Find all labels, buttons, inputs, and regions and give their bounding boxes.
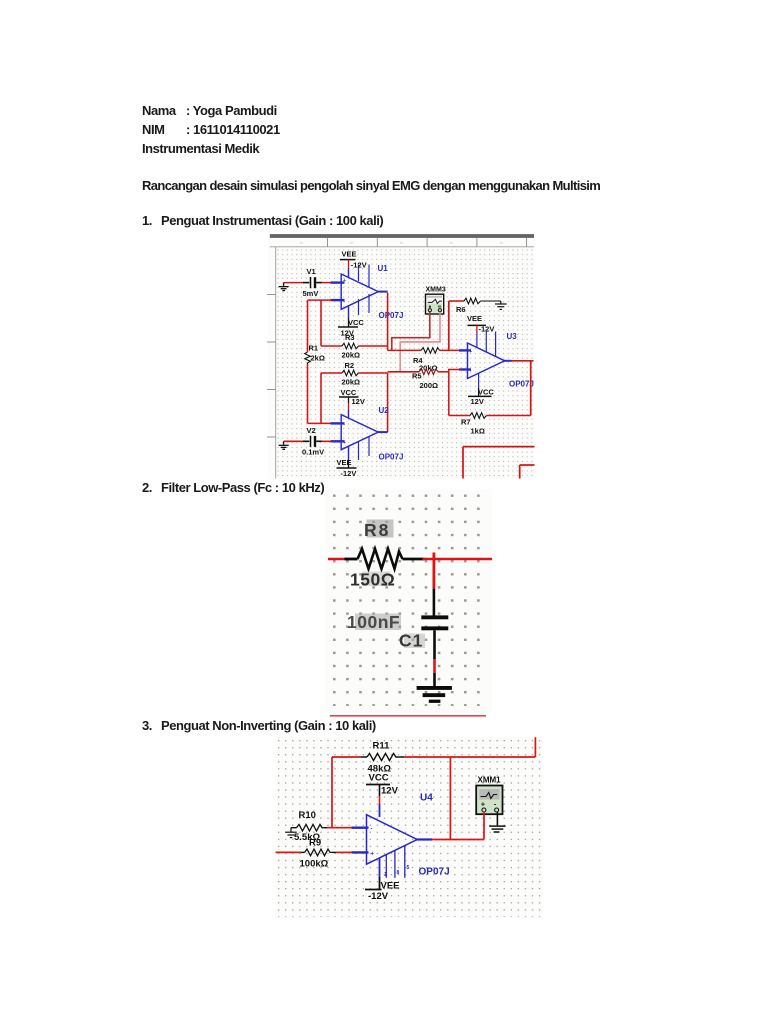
svg-text:-: - [371,827,373,833]
wire segments bottom right (cut off) [463,446,535,448]
output wire [432,839,484,841]
svg-text:20kΩ: 20kΩ [342,377,361,386]
ground [417,686,452,690]
left ruler [275,247,277,479]
svg-text:5: 5 [407,865,410,871]
svg-text:VCC: VCC [348,318,364,327]
schematic background [268,238,535,479]
svg-text:+: + [481,799,486,808]
svg-text:XMM3: XMM3 [426,286,446,293]
item 1 title [142,214,152,227]
svg-text:R1: R1 [309,344,319,353]
header line NIM [142,123,164,136]
U2 inverting input wire [308,422,333,424]
U1 inverting node wires [308,299,333,301]
svg-text:VCC: VCC [478,388,494,397]
svg-text:1: 1 [384,872,387,878]
svg-text:VEE: VEE [467,314,482,323]
svg-text:R2: R2 [345,361,355,370]
VEE rail below U2 [348,446,350,460]
VEE rail [379,858,381,877]
svg-text:-12V: -12V [341,469,357,478]
svg-text:-12V: -12V [368,891,389,902]
wire feedback down to output node [449,757,451,840]
item 3 title [142,719,152,732]
window top bar [270,234,534,238]
svg-text:VCC: VCC [369,773,389,784]
svg-text:U3: U3 [507,332,518,341]
svg-text:OP07J: OP07J [379,311,404,320]
svg-text:R8: R8 [364,520,390,540]
resistor R8 150 ohm [328,558,347,561]
top ruler [270,246,534,248]
svg-text:OP07J: OP07J [379,452,404,461]
svg-text:R9: R9 [309,838,321,849]
svg-text:+: + [469,349,472,355]
svg-text:12V: 12V [352,397,365,406]
op-amp U3 [468,343,505,379]
resistor R8 label [367,520,394,538]
svg-text:U4: U4 [420,793,433,804]
wire inverting node to R11 [331,757,333,828]
svg-text:-12V: -12V [351,260,367,269]
wire ground to V1 [284,282,304,284]
voltage source V2 0.1mV [284,440,304,442]
schematic 3 : non-inverting amplifier multisim screenshot [275,736,544,919]
header line Instrumentasi Medik [142,142,259,155]
ground (V1) [279,283,289,291]
svg-text:+: + [343,440,346,446]
XMM1 right probe to ground [496,812,498,825]
VCC below U3 [478,373,480,388]
svg-text:+: + [343,278,346,284]
wire U1 output node [387,293,389,351]
header line Nama [142,104,176,117]
svg-text:1kΩ: 1kΩ [471,427,485,436]
svg-text:R7: R7 [461,418,471,427]
XMM3 left probe wire [392,312,430,350]
svg-text:100kΩ: 100kΩ [300,859,329,870]
svg-text:20kΩ: 20kΩ [342,351,361,360]
svg-text:R11: R11 [373,741,391,752]
wire V1 to U1 + input [322,282,332,284]
svg-text:R5: R5 [412,371,422,380]
svg-text:U2: U2 [379,406,390,415]
op-amp U4 [367,815,418,865]
svg-text:5mV: 5mV [303,289,319,298]
op-amp U2 [341,415,378,450]
op-amp U1 [341,274,378,309]
schematic 1 : instrumentation amplifier multisim screenshot [267,232,537,480]
svg-text:+: + [371,852,375,858]
svg-text:VEE: VEE [381,881,400,892]
XMM1 left probe wire to output [483,812,485,840]
XMM3 right probe wire [400,312,440,372]
schematic background [275,737,543,918]
svg-text:150Ω: 150Ω [350,570,395,590]
wire (red) bottom edge [330,715,486,717]
svg-text:2kΩ: 2kΩ [311,353,325,362]
svg-text:XMM1: XMM1 [478,776,502,785]
schematic 2 : low pass filter multisim screenshot [326,488,493,718]
svg-text:V2: V2 [307,426,316,435]
schematic background [326,489,492,713]
svg-text:R10: R10 [299,810,316,821]
svg-text:C1: C1 [399,631,423,651]
svg-text:12V: 12V [471,397,484,406]
svg-text:VEE: VEE [337,458,352,467]
svg-text:V1: V1 [307,267,316,276]
heading Rancangan [142,179,600,192]
svg-text:R6: R6 [456,305,466,314]
svg-text:12V: 12V [381,786,399,797]
svg-text:VCC: VCC [341,388,357,397]
svg-text:OP07J: OP07J [419,867,450,878]
svg-text:U1: U1 [378,264,389,273]
resistor R5 200 ohm and wire to U3 - [388,371,419,373]
svg-text:0.1mV: 0.1mV [302,448,324,457]
wire output node [423,558,493,561]
resistor R4 20k ohm and wire to U3 + [388,349,421,351]
wire feedback to top edge [534,737,536,757]
ground (V2) [279,441,289,449]
resistor R2 20k ohm (U2 feedback) [321,372,342,374]
svg-text:100nF: 100nF [347,612,400,632]
svg-text:VEE: VEE [342,249,357,258]
svg-text:200Ω: 200Ω [420,381,439,390]
svg-text:8: 8 [397,870,400,876]
R8 value label [362,572,390,587]
item 2 title [142,481,152,494]
VCC rail below U1 [348,306,350,318]
resistor R6 and ground [448,301,450,350]
svg-text:R3: R3 [345,333,355,342]
resistor R3 20k ohm (U1 feedback) [321,345,342,347]
voltage source V1 5mV [303,277,322,288]
node junction wire to C1 [432,553,435,589]
capacitor C1 100nF [421,615,448,619]
resistor R7 1k ohm (U3 feedback) and output wire [504,360,512,362]
